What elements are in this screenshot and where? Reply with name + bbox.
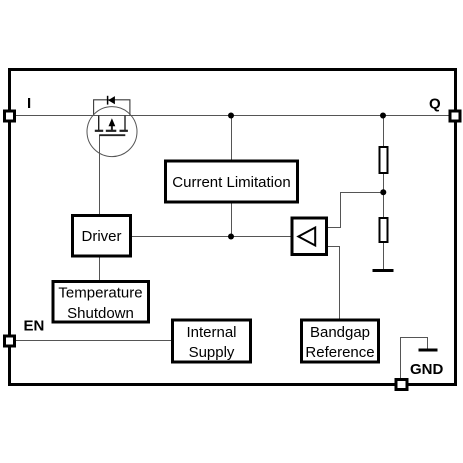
svg-text:Driver: Driver xyxy=(82,228,122,245)
svg-text:Reference: Reference xyxy=(305,344,374,361)
svg-text:Temperature: Temperature xyxy=(58,285,142,302)
svg-text:Q: Q xyxy=(429,96,441,113)
svg-text:Shutdown: Shutdown xyxy=(67,305,134,322)
svg-text:Current Limitation: Current Limitation xyxy=(172,174,290,191)
svg-text:EN: EN xyxy=(24,318,45,335)
svg-text:Bandgap: Bandgap xyxy=(310,324,370,341)
svg-text:Internal: Internal xyxy=(186,324,236,341)
svg-text:Supply: Supply xyxy=(189,344,235,361)
svg-text:I: I xyxy=(27,95,31,112)
svg-text:GND: GND xyxy=(410,361,444,378)
